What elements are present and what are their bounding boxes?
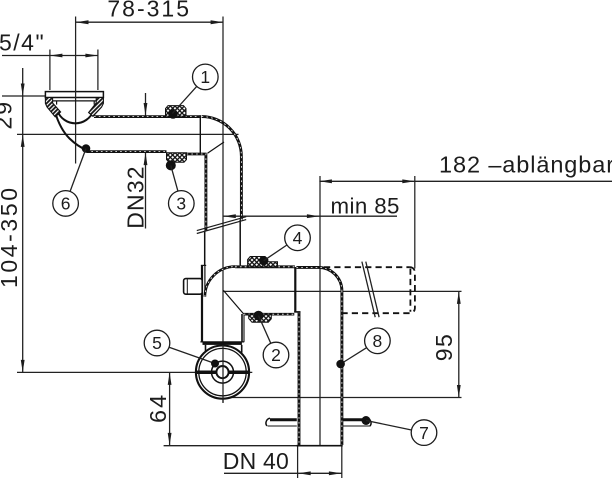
svg-text:6: 6 (61, 194, 71, 214)
bend socket chamfer (208, 142, 225, 153)
svg-text:DN32: DN32 (123, 165, 149, 229)
svg-text:182 –ablängbar: 182 –ablängbar (439, 152, 612, 178)
dimension 78-315 line (76, 20, 224, 24)
svg-text:95: 95 (431, 333, 457, 362)
dimension 29 text (0, 100, 17, 130)
axis flange vertical (75, 17, 77, 164)
basin flange left hatched wall (45, 98, 60, 117)
basin flange band (45, 92, 103, 101)
tee top corner into standpipe (296, 267, 342, 291)
trap elbow outer fillet (205, 267, 235, 297)
label circle 7 (366, 420, 437, 446)
strainer dome (57, 102, 95, 124)
wall pipe dashed end (410, 267, 415, 313)
dimension 104-350 text (0, 185, 22, 288)
dimension DN32 arrows (144, 93, 148, 229)
dimension 5/4 inch text (0, 30, 45, 56)
label circle 1 (172, 64, 218, 113)
dimension DN 40 (223, 446, 342, 478)
dimension 95 (222, 291, 462, 397)
seal nut item2 (249, 311, 272, 323)
dimension DN32 text (123, 165, 149, 229)
union nut item4 (248, 256, 278, 267)
svg-text:5/4": 5/4" (0, 30, 45, 56)
downpipe outer wall (240, 156, 241, 265)
inlet elbow outer curve (55, 111, 87, 151)
svg-text:7: 7 (419, 423, 429, 443)
centerline trap (17, 371, 252, 373)
trap neck right wall (242, 314, 244, 342)
label circle 2 (259, 316, 289, 368)
dimension 64 (145, 372, 342, 445)
standpipe left wall (294, 312, 300, 446)
label circle 5 (144, 330, 219, 367)
centerline horizontal pipe (17, 133, 239, 135)
tee socket wall (294, 267, 296, 312)
outlet top edge (235, 265, 295, 268)
trap cap flange (200, 342, 244, 353)
break symbol downpipe (197, 217, 246, 234)
axis overlay flange (75, 91, 77, 98)
standpipe right wall item8 (340, 291, 343, 445)
cleaning wheel item5 (196, 346, 249, 399)
wall pipe dashed bottom (342, 312, 410, 314)
label circle 4 (264, 225, 311, 261)
svg-text:78-315: 78-315 (107, 0, 191, 22)
svg-text:4: 4 (293, 228, 303, 248)
axis downpipe vertical (222, 17, 224, 404)
dimension 5/4 inch line (2, 50, 98, 91)
dimension 182 ablaengbar (319, 152, 612, 184)
axis standpipe vertical (319, 176, 321, 446)
dimension 78-315 text (107, 0, 191, 22)
rosette item7 right wing (343, 416, 371, 426)
axis overlay downpipe (222, 345, 224, 403)
dimension 104-350 bottom arrow (21, 360, 25, 373)
svg-text:104-350: 104-350 (0, 185, 22, 288)
rosette item7 left wing (266, 418, 297, 426)
break symbol wall pipe (362, 262, 379, 318)
elbow inner chamfer (223, 290, 243, 314)
extension line 182 right (414, 176, 416, 269)
horizontal DN32 pipe top edge (94, 115, 200, 118)
outlet bottom edge (244, 313, 295, 316)
svg-text:min 85: min 85 (331, 194, 400, 219)
wall pipe dashed top (324, 266, 410, 268)
dimension min 85 (223, 194, 400, 219)
compression nut top item1 (166, 106, 187, 119)
horizontal DN32 pipe bottom edge (87, 152, 207, 154)
standpipe bottom edge (297, 445, 343, 447)
svg-text:8: 8 (373, 331, 383, 351)
trap elbow left wall (201, 265, 206, 342)
label circle 3 (169, 165, 195, 216)
svg-text:DN 40: DN 40 (223, 448, 289, 474)
pipe to bend joint (199, 115, 201, 154)
svg-text:1: 1 (200, 67, 210, 87)
basin flange right hatched wall (89, 98, 104, 117)
svg-text:2: 2 (271, 345, 281, 365)
svg-text:64: 64 (145, 393, 171, 423)
leader dot item6 (82, 144, 91, 153)
svg-text:29: 29 (0, 100, 17, 130)
svg-text:5: 5 (152, 333, 162, 353)
upper bend outer arc (202, 117, 242, 157)
mounting tab (184, 279, 203, 295)
compression nut bottom item3 (166, 153, 187, 171)
dimension 29 lines (2, 68, 45, 372)
label circle 6 (53, 149, 86, 217)
svg-text:3: 3 (176, 194, 186, 214)
downpipe inner wall (205, 154, 206, 266)
label circle 8 (336, 328, 390, 368)
